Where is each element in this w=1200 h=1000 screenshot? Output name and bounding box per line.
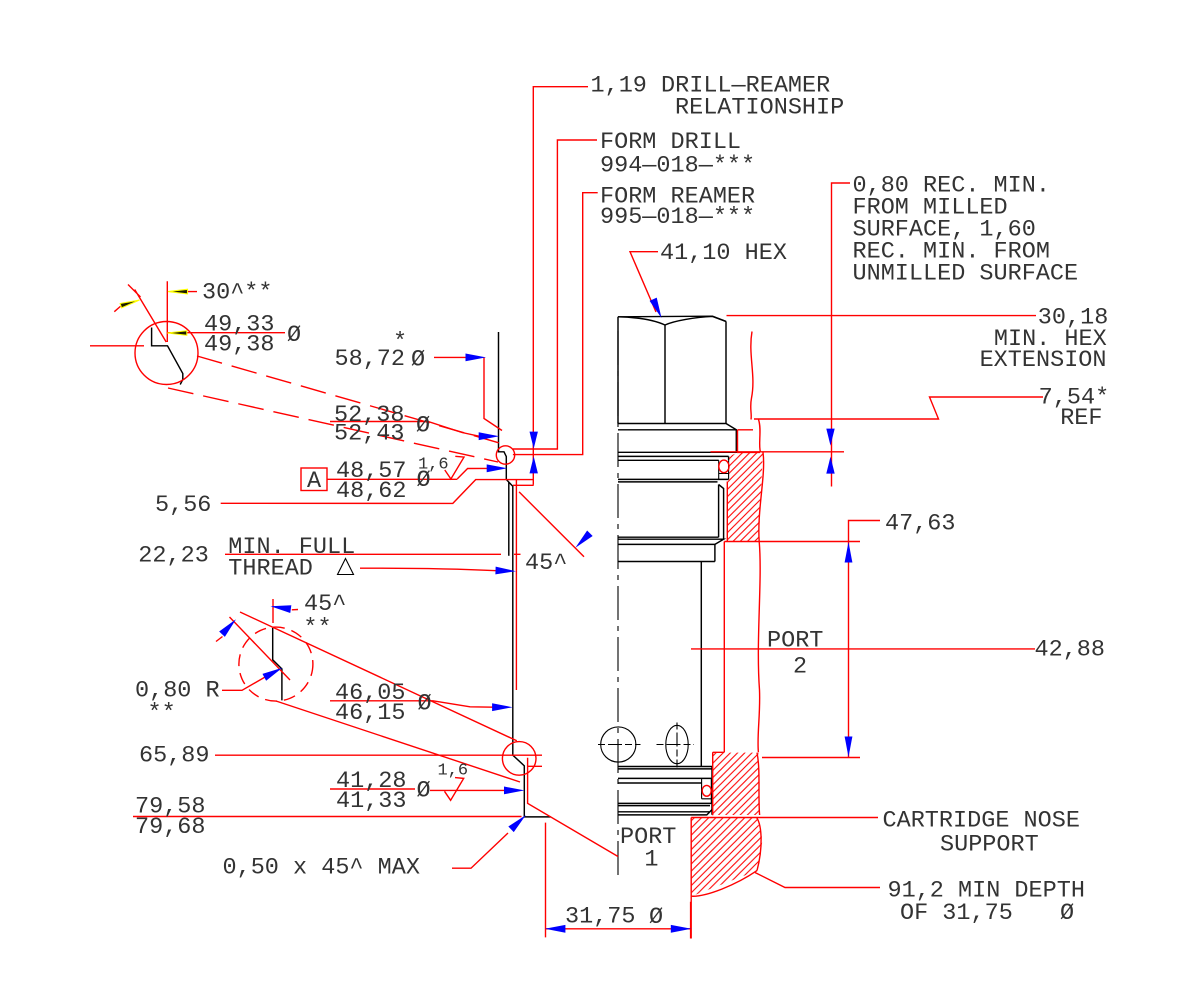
- wavy break lines: [751, 332, 753, 420]
- o-ring seal (upper): [719, 460, 729, 473]
- 30^ dimension: [114, 281, 197, 342]
- 42,88 line: [691, 648, 1035, 650]
- 0,50 x 45 leader: [452, 833, 508, 868]
- svg-text:Ø: Ø: [416, 413, 430, 440]
- 49,33/49,38 fraction line: [90, 333, 285, 346]
- svg-text:PORT: PORT: [767, 628, 823, 655]
- seal gland and o-ring: [618, 456, 729, 460]
- svg-text:52,43: 52,43: [334, 421, 405, 448]
- svg-text:**: **: [303, 615, 331, 642]
- 0,80 hourglass arrows: [826, 429, 834, 446]
- svg-text:UNMILLED SURFACE: UNMILLED SURFACE: [853, 261, 1079, 288]
- svg-text:22,23: 22,23: [138, 542, 209, 569]
- svg-text:1,6: 1,6: [418, 456, 449, 475]
- finish mark 1,6 (upper): [445, 456, 464, 479]
- 48,57 leader + datum box: [301, 468, 327, 491]
- 1,19 drill-reamer leader: [513, 87, 588, 486]
- 41,28 leader + stub: [330, 766, 542, 790]
- 46,05 leader: [330, 701, 494, 707]
- svg-text:**: **: [148, 700, 176, 727]
- spot face rim: [737, 430, 760, 453]
- 45^ detail arrows: [270, 602, 291, 613]
- hatch areas: [728, 453, 763, 541]
- svg-text:41,10 HEX: 41,10 HEX: [660, 240, 787, 267]
- svg-text:79,68: 79,68: [135, 814, 206, 841]
- svg-text:RELATIONSHIP: RELATIONSHIP: [675, 95, 844, 122]
- min full thread arrow: [495, 567, 516, 576]
- cartridge nose support leader: [691, 817, 878, 819]
- svg-text:Ø: Ø: [417, 778, 431, 805]
- svg-text:48,62: 48,62: [336, 478, 407, 505]
- o-ring seal (nose): [702, 785, 711, 796]
- svg-text:Ø: Ø: [287, 322, 301, 349]
- 0,80 rec min leader: [832, 183, 851, 487]
- form drill leader: [513, 140, 597, 449]
- svg-text:THREAD: THREAD: [228, 556, 313, 583]
- 45^ thread arrow: [573, 531, 593, 551]
- 52,38 leader: [330, 422, 479, 437]
- 30,18 min hex line: [727, 315, 1037, 317]
- thread minor line: [508, 482, 510, 556]
- thread ext line: [515, 480, 517, 690]
- svg-text:46,15: 46,15: [335, 700, 406, 727]
- detail I geometry (top-left magnified step): [152, 328, 183, 385]
- 5,56 leader: [221, 480, 534, 504]
- detail I circle + guides: [135, 322, 198, 385]
- washer band: [618, 430, 736, 453]
- svg-text:30^**: 30^**: [202, 280, 273, 307]
- svg-text:CARTRIDGE NOSE: CARTRIDGE NOSE: [883, 808, 1080, 835]
- svg-text:41,33: 41,33: [336, 788, 407, 815]
- svg-text:995—018—***: 995—018—***: [600, 204, 755, 231]
- hex head: [618, 316, 726, 321]
- 41,28 arrow: [504, 787, 525, 795]
- svg-text:EXTENSION: EXTENSION: [980, 347, 1107, 374]
- svg-text:SUPPORT: SUPPORT: [940, 832, 1039, 859]
- 45^ detail dim: [216, 599, 298, 680]
- 79,58/79,68 dim: [133, 758, 618, 857]
- olive arrows (30^ dim): [168, 289, 188, 294]
- 58,72 leader: [434, 357, 502, 430]
- svg-text:2: 2: [793, 654, 807, 681]
- cavity bore walls: [726, 482, 728, 542]
- svg-text:994—018—***: 994—018—***: [600, 153, 755, 180]
- 7,54 REF zigzag: [754, 397, 1043, 419]
- svg-text:Ø: Ø: [649, 904, 663, 931]
- svg-text:49,38: 49,38: [204, 332, 275, 359]
- body to nose: [700, 562, 702, 767]
- finish mark 1,6 (lower): [445, 778, 464, 801]
- svg-text:47,63: 47,63: [885, 511, 956, 538]
- svg-text:1: 1: [644, 847, 658, 874]
- 0,50x45 arrow: [508, 812, 528, 832]
- detail balloon on upper step: [496, 446, 514, 464]
- 45^ thread chamfer dim: [519, 492, 584, 557]
- 31,75 arrows: [545, 925, 566, 933]
- under-thread lands: [618, 544, 715, 561]
- svg-text:Ø: Ø: [1060, 900, 1074, 927]
- svg-text:REF: REF: [1060, 405, 1102, 432]
- min full thread leader: [360, 568, 497, 571]
- 91,2 min depth leader: [755, 873, 880, 888]
- nose flange: [618, 767, 712, 815]
- 0,80 R leader: [222, 677, 266, 691]
- 65,89 line: [215, 754, 542, 756]
- svg-text:1,6: 1,6: [438, 762, 469, 781]
- cavity wall upper bore: [499, 332, 551, 817]
- 47,63 arrows: [845, 542, 853, 563]
- svg-text:65,89: 65,89: [139, 742, 210, 769]
- svg-text:Ø: Ø: [411, 347, 425, 374]
- 22,23 dim line: [225, 553, 521, 555]
- detail II circle + guides: [239, 627, 313, 701]
- svg-text:31,75: 31,75: [565, 903, 636, 930]
- svg-text:*: *: [393, 329, 407, 356]
- 41,10 hex arrow: [650, 298, 665, 320]
- thread section: [719, 485, 724, 540]
- svg-text:OF 31,75: OF 31,75: [900, 900, 1013, 927]
- detail balloon on lower step: [502, 742, 536, 776]
- 46,05 arrow: [492, 703, 513, 711]
- svg-text:A: A: [307, 468, 322, 495]
- 41,10 hex leader: [630, 252, 658, 312]
- 47,63 dimension: [724, 521, 880, 758]
- 52,38 arrow: [479, 432, 500, 440]
- centerline: [617, 331, 619, 878]
- svg-text:45^: 45^: [525, 550, 567, 577]
- port1 cross holes: [601, 727, 636, 762]
- detail II geometry (lower magnified step): [273, 628, 282, 701]
- svg-text:Ø: Ø: [418, 691, 432, 718]
- 31,75 dim: [546, 823, 691, 939]
- svg-text:0,50 x 45^ MAX: 0,50 x 45^ MAX: [223, 855, 420, 882]
- svg-text:5,56: 5,56: [155, 492, 211, 519]
- form reamer leader: [513, 193, 598, 455]
- 58,72 arrow: [466, 354, 487, 362]
- svg-text:45^: 45^: [304, 591, 346, 618]
- 0,80R arrow: [262, 664, 284, 681]
- svg-text:42,88: 42,88: [1034, 637, 1105, 664]
- 48,57 arrow: [487, 464, 508, 472]
- 1,19 hourglass arrows: [530, 432, 538, 449]
